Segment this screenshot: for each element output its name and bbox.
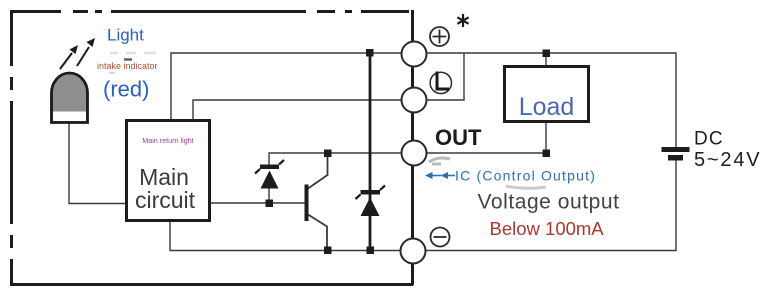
svg-text:Light: Light: [107, 26, 144, 45]
svg-text:IC (Control Output): IC (Control Output): [455, 168, 596, 184]
svg-text:Below 100mA: Below 100mA: [490, 218, 605, 239]
svg-text:Voltage output: Voltage output: [478, 191, 620, 214]
svg-text:DC: DC: [694, 129, 724, 150]
svg-text:Main return light: Main return light: [142, 136, 194, 145]
svg-text:(red): (red): [103, 77, 149, 102]
svg-text:circuit: circuit: [135, 187, 196, 213]
svg-text:Load: Load: [519, 93, 575, 121]
svg-text:5~24V: 5~24V: [694, 149, 761, 171]
svg-text:intake indicator: intake indicator: [97, 61, 158, 71]
svg-text:OUT: OUT: [435, 125, 482, 150]
